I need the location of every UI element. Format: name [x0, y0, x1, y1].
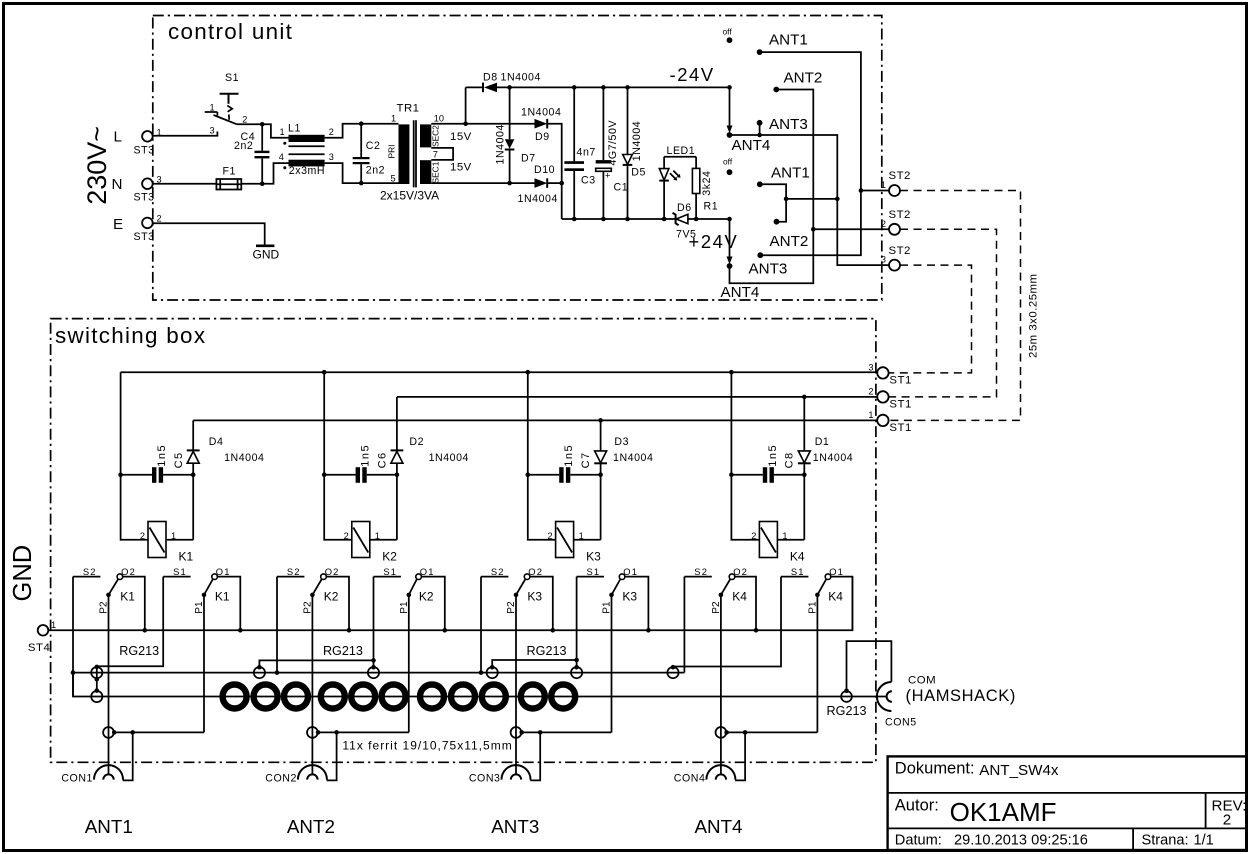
svg-text:1N4004: 1N4004 — [501, 72, 541, 84]
svg-text:(HAMSHACK): (HAMSHACK) — [906, 687, 1017, 705]
wire O1 K1 to GND rail — [217, 577, 240, 631]
svg-text:S1: S1 — [791, 566, 805, 577]
svg-text:COM: COM — [908, 675, 936, 687]
svg-text:2: 2 — [868, 387, 873, 397]
svg-text:1N4004: 1N4004 — [613, 452, 653, 464]
svg-text:RG213: RG213 — [827, 704, 867, 718]
svg-text:K4: K4 — [828, 590, 843, 604]
wire O1 K3 to GND rail — [625, 577, 649, 631]
relay block K2 left vertical — [322, 370, 327, 375]
capacitor C7 1n5 — [528, 474, 559, 476]
svg-text:RG213: RG213 — [119, 644, 159, 658]
svg-text:C7: C7 — [580, 451, 592, 468]
svg-text:3: 3 — [868, 363, 873, 373]
svg-text:C8: C8 — [784, 451, 796, 468]
svg-text:S1: S1 — [586, 566, 600, 577]
svg-text:GND: GND — [9, 545, 37, 602]
svg-text:ST1: ST1 — [889, 422, 911, 434]
svg-text:ANT2: ANT2 — [770, 233, 809, 250]
svg-text:2: 2 — [157, 214, 162, 224]
capacitor C8 1n5 — [731, 474, 762, 476]
ferrite beads (11x) — [223, 685, 247, 709]
connector ST2 pin2 — [889, 224, 900, 235]
svg-text:1N4004: 1N4004 — [495, 124, 507, 164]
capacitor C3 — [572, 85, 577, 90]
wire O2 K1 to GND rail — [123, 577, 145, 631]
node C4/N rail — [260, 181, 265, 186]
svg-text:Dokument:: Dokument: — [895, 760, 975, 778]
svg-text:L1: L1 — [288, 123, 301, 135]
svg-text:RG213: RG213 — [527, 644, 567, 658]
antenna connector CON3 — [502, 765, 531, 780]
svg-text:2: 2 — [140, 531, 145, 541]
svg-text:ST3: ST3 — [134, 231, 155, 243]
coax shield ring at CON2 — [307, 727, 318, 738]
pivot P1 K2 — [407, 593, 412, 598]
wire S1 K2 to coax rings — [373, 577, 375, 667]
connector ST2 pin3 — [889, 260, 900, 271]
relay coil K4 — [777, 539, 804, 541]
node D9/D10 cathodes — [559, 181, 564, 186]
connector ST3 pin3 (N) — [142, 178, 153, 189]
wire O1 K2 to GND rail — [421, 577, 444, 631]
connector ST1 pin2 — [877, 391, 888, 402]
svg-text:230V~: 230V~ — [82, 126, 112, 205]
stub ANT3 to ANT4 line — [759, 123, 761, 135]
wire CON2 shield / P1 — [318, 731, 409, 733]
svg-text:25m 3x0.25mm: 25m 3x0.25mm — [1028, 274, 1040, 359]
coax to CON4: center conductor P2 — [720, 595, 722, 775]
svg-text:1: 1 — [881, 180, 886, 190]
wire E to GND — [153, 223, 265, 245]
wire rail ST1-2 — [397, 396, 878, 398]
svg-text:D1: D1 — [815, 436, 830, 448]
connector CON5 — [877, 682, 892, 711]
wire P1 K2 down — [408, 595, 410, 733]
svg-text:OK1AMF: OK1AMF — [950, 797, 1057, 827]
title block — [888, 756, 1247, 850]
wire O1 K4 to GND rail — [831, 577, 853, 631]
coax shield ring K3 b — [571, 667, 582, 678]
svg-text:K2: K2 — [382, 550, 397, 564]
svg-text:4: 4 — [279, 152, 284, 162]
svg-text:CON4: CON4 — [674, 773, 706, 785]
relay coil K2 — [370, 539, 397, 541]
antenna connector CON4 — [706, 765, 735, 780]
svg-text:ANT3: ANT3 — [769, 116, 808, 133]
svg-text:3: 3 — [881, 255, 886, 265]
svg-text:switching box: switching box — [55, 323, 206, 348]
svg-text:4n7: 4n7 — [577, 147, 596, 159]
svg-text:11x ferrit 19/10,75x11,5mm: 11x ferrit 19/10,75x11,5mm — [342, 738, 512, 752]
svg-text:O2: O2 — [528, 566, 543, 577]
node C2 top — [359, 121, 364, 126]
svg-text:ANT2: ANT2 — [287, 816, 335, 837]
svg-text:2: 2 — [547, 531, 552, 541]
svg-text:1/1: 1/1 — [1194, 833, 1214, 849]
pivot P2 K4 — [719, 593, 724, 598]
svg-text:ST3: ST3 — [134, 191, 155, 203]
svg-text:CON2: CON2 — [265, 773, 297, 785]
coax shield ring K3 a — [487, 667, 498, 678]
svg-text:ST2: ST2 — [889, 170, 911, 182]
svg-text:2x3mH: 2x3mH — [289, 165, 325, 177]
svg-text:1n5: 1n5 — [360, 444, 372, 467]
svg-text:D10: D10 — [534, 164, 555, 176]
svg-text:ANT_SW4x: ANT_SW4x — [979, 762, 1059, 779]
svg-text:O1: O1 — [623, 566, 638, 577]
wire P1 K4 down — [816, 595, 818, 733]
svg-text:ANT1: ANT1 — [771, 165, 810, 182]
-24V feed arrow to bank1 wiper — [727, 85, 732, 90]
cable ST2-1 to ST1-1 (dashed) — [888, 191, 1020, 421]
svg-text:1: 1 — [171, 531, 176, 541]
svg-text:29.10.2013 09:25:16: 29.10.2013 09:25:16 — [954, 833, 1088, 849]
svg-text:ST4: ST4 — [28, 642, 50, 654]
svg-text:1: 1 — [391, 114, 396, 124]
wire O2 K4 to GND rail — [735, 577, 756, 631]
svg-text:S2: S2 — [491, 566, 505, 577]
wire rail ST1-3 (relay common) — [121, 371, 878, 373]
pivot P2 K1 — [106, 593, 111, 598]
svg-text:S2: S2 — [694, 566, 708, 577]
svg-text:D3: D3 — [614, 436, 629, 448]
antenna connector CON1 — [94, 765, 123, 780]
svg-text:ST2: ST2 — [889, 245, 911, 257]
svg-text:2: 2 — [242, 115, 247, 125]
svg-text:CON3: CON3 — [469, 773, 501, 785]
wire TR1 pin10 rail — [431, 123, 534, 125]
svg-text:K1: K1 — [120, 590, 135, 604]
svg-text:K2: K2 — [324, 590, 339, 604]
wire CON3 shield / P1 — [522, 731, 612, 733]
svg-text:D5: D5 — [631, 166, 646, 178]
wire P1 K3 down — [611, 595, 613, 733]
GND rail — [48, 577, 852, 631]
svg-text:-24V: -24V — [670, 64, 715, 85]
svg-text:1N4004: 1N4004 — [224, 452, 264, 464]
coax shield ring K1 on bus2 — [91, 691, 102, 702]
svg-text:2x15V/3VA: 2x15V/3VA — [380, 189, 439, 203]
capacitor C1 4G7/50V (electrolytic) — [601, 85, 606, 90]
svg-text:2: 2 — [751, 531, 756, 541]
wire CON1 shield / P1 — [114, 731, 204, 733]
coax shield ring K2 a — [254, 667, 265, 678]
connector ST4 — [38, 625, 49, 636]
svg-text:2: 2 — [1223, 812, 1231, 829]
wire S1 pin2 to node — [237, 123, 262, 125]
svg-text:control unit: control unit — [168, 19, 293, 44]
connector ST3 pin2 (E) — [142, 218, 153, 229]
svg-text:K2: K2 — [419, 590, 434, 604]
resistor R1 3k24 — [695, 157, 697, 169]
wire S2 K2 to bus1 — [276, 577, 278, 673]
svg-text:LED1: LED1 — [667, 145, 696, 157]
svg-text:2: 2 — [329, 127, 334, 137]
pivot P1 K1 — [202, 593, 207, 598]
connector ST1 pin3 — [877, 367, 888, 378]
svg-text:R1: R1 — [704, 201, 719, 213]
svg-text:ANT3: ANT3 — [749, 260, 788, 277]
svg-text:K3: K3 — [586, 550, 601, 564]
svg-text:ANT1: ANT1 — [85, 816, 133, 837]
svg-text:5: 5 — [391, 174, 396, 184]
svg-text:ANT4: ANT4 — [721, 284, 760, 301]
svg-text:10: 10 — [434, 114, 444, 124]
connector ST1 pin1 — [877, 415, 888, 426]
svg-text:2n2: 2n2 — [366, 164, 385, 176]
wire S1 K4 to coax ring — [673, 577, 781, 667]
svg-text:7V5: 7V5 — [676, 229, 697, 241]
svg-text:C3: C3 — [581, 174, 596, 186]
wire bank1 ANT2 to ST2-2 net — [730, 90, 814, 284]
node ST2-3 vertical / bank2 horizontal — [835, 197, 840, 202]
wire node to L1 pin1 — [262, 124, 288, 138]
svg-text:K3: K3 — [622, 590, 637, 604]
svg-text:E: E — [113, 216, 123, 233]
coax to CON1: center conductor P2 — [108, 595, 110, 775]
svg-text:1: 1 — [579, 531, 584, 541]
node D7 top — [507, 85, 512, 90]
svg-text:1N4004: 1N4004 — [631, 121, 643, 161]
svg-text:ST1: ST1 — [889, 375, 911, 387]
svg-text:ANT4: ANT4 — [694, 816, 742, 837]
svg-text:S1: S1 — [173, 566, 187, 577]
svg-text:ST1: ST1 — [889, 398, 911, 410]
svg-text:1n5: 1n5 — [156, 444, 168, 467]
wire bottom rail to TR1 pin5 — [361, 182, 398, 184]
wire up to D8 — [465, 87, 467, 123]
coax shield ring at CON3 — [511, 727, 522, 738]
switching box — [51, 319, 876, 763]
svg-text:ST3: ST3 — [134, 144, 155, 156]
svg-text:CON5: CON5 — [885, 717, 917, 729]
svg-text:S2: S2 — [83, 566, 97, 577]
node D7 bottom — [507, 181, 512, 186]
svg-text:N: N — [112, 176, 123, 193]
svg-text:SEC1: SEC1 — [430, 161, 440, 183]
svg-text:4G7/50V: 4G7/50V — [607, 120, 619, 166]
wire ST2-2 horizontal — [813, 228, 889, 230]
svg-text:O2: O2 — [325, 566, 340, 577]
shield bus 2 (ferrite bus) — [73, 673, 886, 697]
node C2 bottom — [359, 181, 364, 186]
svg-text:off: off — [723, 27, 733, 37]
connector ST3 pin1 (L) — [142, 131, 153, 142]
svg-text:K4: K4 — [790, 550, 805, 564]
svg-text:PRI: PRI — [387, 145, 397, 159]
pivot P1 K3 — [609, 593, 614, 598]
svg-text:15V: 15V — [450, 131, 472, 143]
svg-text:+: + — [605, 171, 610, 181]
ground symbol GND — [256, 245, 274, 248]
svg-text:1N4004: 1N4004 — [429, 452, 469, 464]
wire down to +24V rail — [561, 183, 563, 219]
wire L to S1 pin3 — [153, 132, 218, 136]
svg-text:2n2: 2n2 — [234, 140, 253, 152]
svg-text:1: 1 — [782, 531, 787, 541]
capacitor C5 1n5 — [121, 474, 152, 476]
shield bus 1 — [73, 672, 684, 674]
wire P1 K1 down — [203, 595, 205, 733]
wire ST2-1 horizontal — [861, 190, 889, 192]
svg-text:ANT4: ANT4 — [732, 137, 771, 154]
svg-text:3: 3 — [210, 126, 215, 136]
svg-text:Datum:: Datum: — [895, 833, 942, 849]
wire D9 cathode down — [547, 124, 562, 183]
svg-text:S1: S1 — [225, 72, 239, 84]
pivot P2 K3 — [514, 593, 519, 598]
wire bank1 ANT4 to ST2-3 net — [730, 135, 890, 265]
wire CON4 shield / P1 — [727, 731, 818, 733]
svg-text:D9: D9 — [535, 131, 550, 143]
coax shield ring K4 — [667, 667, 678, 678]
pivot P1 K4 — [815, 593, 820, 598]
wire O2 K2 to GND rail — [326, 577, 349, 631]
wire top rail to TR1 pin1 — [361, 123, 398, 125]
wire node to L1 pin4 — [262, 163, 288, 184]
svg-text:15V: 15V — [450, 161, 472, 173]
wire N to fuse — [153, 183, 217, 185]
svg-text:C6: C6 — [376, 451, 388, 468]
svg-text:C1: C1 — [614, 181, 629, 193]
relay block K1 left vertical — [121, 372, 148, 540]
svg-text:1N4004: 1N4004 — [518, 193, 558, 205]
wire bank1 ANT1 to ST2-1 net — [760, 52, 861, 255]
svg-text:C2: C2 — [366, 140, 381, 152]
CON5 shield loop — [847, 641, 892, 691]
svg-text:D4: D4 — [209, 436, 224, 448]
coax to CON3: center conductor P2 — [515, 595, 517, 775]
svg-text:F1: F1 — [223, 166, 236, 178]
svg-text:O2: O2 — [121, 566, 136, 577]
wire L1 pin2 to top rail — [325, 124, 362, 138]
svg-text:1: 1 — [868, 410, 873, 420]
svg-text:Autor:: Autor: — [895, 797, 939, 815]
svg-text:1N4004: 1N4004 — [521, 106, 561, 118]
svg-text:L: L — [114, 129, 122, 146]
wire S1 K1 to coax — [97, 577, 163, 667]
svg-text:O1: O1 — [420, 566, 435, 577]
node S1/C4/L1 — [260, 122, 265, 127]
svg-text:2: 2 — [881, 219, 886, 229]
relay block K4 left vertical — [729, 370, 734, 375]
relay block K3 left vertical — [526, 370, 531, 375]
wire L1 pin3 to bottom rail — [325, 163, 362, 183]
cable ST2-3 to ST1-3 (dashed) — [888, 265, 971, 373]
coax shield ring K1 on bus1 — [91, 667, 102, 678]
-24V rail — [497, 86, 730, 88]
svg-text:1: 1 — [51, 620, 56, 630]
wire TR1 pin6 rail — [431, 182, 534, 184]
svg-text:D7: D7 — [521, 153, 536, 165]
diode D5 1N4004 (vertical) — [625, 85, 630, 90]
svg-text:O1: O1 — [829, 566, 844, 577]
svg-text:7: 7 — [433, 150, 438, 160]
svg-text:1: 1 — [280, 127, 285, 137]
svg-text:1N4004: 1N4004 — [813, 452, 853, 464]
antenna connector CON2 — [298, 765, 327, 780]
wire TR1 pin7 link — [431, 148, 453, 160]
coax shield ring K2 b — [368, 667, 379, 678]
node pin10/D8 branch — [463, 121, 468, 126]
svg-text:O2: O2 — [733, 566, 748, 577]
svg-text:ANT3: ANT3 — [491, 816, 539, 837]
svg-text:RG213: RG213 — [323, 644, 363, 658]
svg-text:3k24: 3k24 — [701, 171, 713, 196]
svg-text:K4: K4 — [732, 590, 747, 604]
wire fuse to node — [241, 183, 262, 185]
cable ST2-2 to ST1-2 (dashed) — [888, 229, 996, 397]
coax shield ring at CON1 — [103, 727, 114, 738]
coax shield ring at CON5 — [841, 691, 852, 702]
svg-text:1n5: 1n5 — [767, 444, 779, 467]
svg-text:ST2: ST2 — [889, 209, 911, 221]
connector ST2 pin1 — [889, 185, 900, 196]
svg-text:D2: D2 — [409, 436, 424, 448]
svg-text:C5: C5 — [173, 451, 185, 468]
svg-text:off: off — [723, 157, 733, 167]
capacitor C6 1n5 — [324, 474, 355, 476]
svg-text:Strana:: Strana: — [1142, 833, 1189, 849]
svg-text:1: 1 — [210, 103, 215, 113]
coax to CON2: center conductor P2 — [311, 595, 313, 775]
svg-text:K1: K1 — [179, 550, 194, 564]
svg-text:ANT1: ANT1 — [769, 32, 808, 49]
wire S2 K4 to bus1 end — [683, 577, 685, 673]
svg-text:K1: K1 — [215, 590, 230, 604]
svg-text:O1: O1 — [216, 566, 231, 577]
svg-text:S2: S2 — [287, 566, 301, 577]
wire S2 K1 to buses — [72, 577, 74, 697]
pivot P2 K2 — [310, 593, 315, 598]
svg-text:1n5: 1n5 — [563, 444, 575, 467]
svg-text:GND: GND — [253, 248, 280, 262]
wire S2 K3 to bus1 — [480, 577, 482, 673]
svg-text:3: 3 — [329, 152, 334, 162]
relay coil K3 — [574, 539, 601, 541]
coax shield ring at CON4 — [716, 727, 727, 738]
svg-text:S1: S1 — [383, 566, 397, 577]
svg-text:CON1: CON1 — [61, 773, 93, 785]
wire S1 K3 to coax rings — [576, 577, 578, 667]
+24V rail — [562, 218, 676, 220]
svg-text:D6: D6 — [677, 202, 692, 214]
svg-text:TR1: TR1 — [397, 103, 420, 115]
relay coil K1 — [166, 539, 193, 541]
wire rail ST1-1 — [193, 419, 877, 421]
wire O2 K3 to GND rail — [530, 577, 553, 631]
+24V feed arrow to bank2 wiper — [729, 219, 731, 259]
svg-text:2: 2 — [344, 531, 349, 541]
svg-text:K3: K3 — [527, 590, 542, 604]
svg-text:SEC2: SEC2 — [430, 125, 440, 147]
svg-text:ANT2: ANT2 — [784, 70, 823, 87]
diode D7 1N4004 (vertical) — [509, 87, 511, 139]
svg-text:D8: D8 — [483, 72, 498, 84]
svg-text:1: 1 — [375, 531, 380, 541]
control unit box — [153, 16, 882, 301]
